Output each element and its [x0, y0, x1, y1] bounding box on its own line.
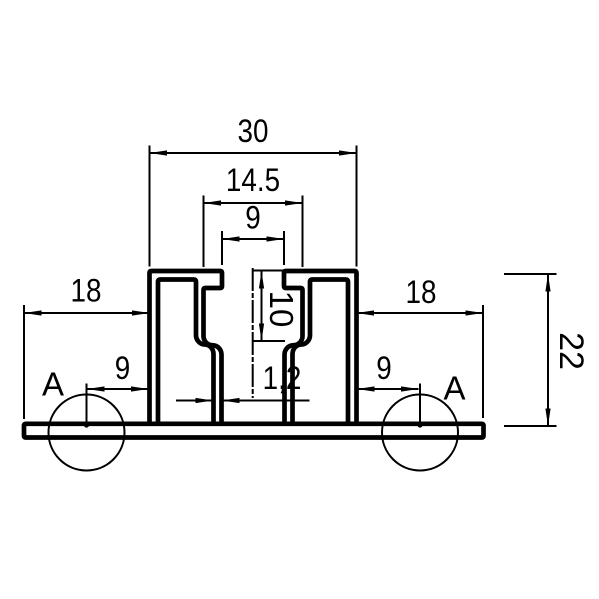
dimension 30: dimension line: [150, 152, 357, 154]
dimension 22: reference lines: [504, 273, 557, 275]
dimension 9 top: dimension line: [222, 238, 284, 240]
dimension 18 left: dimension line: [24, 312, 150, 314]
dimension 22: dimension line: [547, 274, 549, 426]
dimension 14.5: extension lines: [203, 196, 205, 268]
svg-text:22: 22: [552, 332, 590, 370]
base plate: [24, 424, 484, 438]
svg-text:A: A: [443, 370, 465, 407]
arrows dim 1,2: [196, 398, 214, 403]
section point dot right: [417, 422, 422, 427]
profile outer contour (center rail section with lips and central channel): [150, 271, 223, 426]
section centerline right: [419, 384, 421, 424]
dimension 10: reference lines: [253, 270, 285, 272]
arrows dim 22: [545, 274, 550, 292]
svg-text:9: 9: [245, 201, 260, 236]
dimension 9 right: dimension line: [357, 388, 419, 390]
left box inner contour: [158, 280, 214, 427]
svg-text:9: 9: [376, 351, 391, 386]
arrowheads: [24, 150, 551, 426]
profile outer contour right half: [284, 271, 357, 426]
thin line work: [24, 146, 557, 471]
svg-text:10: 10: [263, 291, 300, 328]
dimension 30: extension lines: [149, 146, 151, 267]
svg-text:9: 9: [115, 351, 130, 386]
svg-text:1,2: 1,2: [263, 361, 302, 396]
svg-text:18: 18: [71, 274, 102, 309]
dimension 18 left: extension line: [23, 305, 25, 419]
dimension 9 top: extension lines: [221, 231, 223, 265]
svg-text:30: 30: [238, 114, 269, 149]
detail circle A left: [49, 395, 125, 471]
dimension 18 right: dimension line: [357, 312, 484, 314]
svg-text:18: 18: [406, 275, 437, 310]
centerline of channel: [252, 268, 254, 398]
detail circle A right: [382, 395, 458, 471]
dimension 1,2: dimension line left tail: [176, 400, 213, 402]
section point dot left: [84, 422, 89, 427]
arrows dim 9 top: [222, 236, 240, 241]
arrows dim 9 right: [357, 386, 375, 391]
right box inner contour: [293, 280, 349, 427]
svg-text:A: A: [42, 366, 64, 403]
dimension 9 left: dimension line: [87, 388, 149, 390]
dimension 1,2: dimension line right tail: [222, 400, 310, 402]
arrows dim 18 left: [24, 310, 42, 315]
svg-text:14.5: 14.5: [226, 163, 280, 198]
dimension texts: [42, 114, 590, 406]
section centerline left: [86, 384, 88, 424]
arrows dim 14.5: [204, 200, 222, 205]
arrows dim 18 right: [357, 310, 375, 315]
dimension 14.5: dimension line: [204, 202, 303, 204]
arrows dim 10: [259, 271, 264, 289]
dimension 18 right: extension line: [482, 305, 484, 418]
dimension 10: dimension line: [261, 271, 263, 341]
arrows dim 9 left: [87, 386, 105, 391]
arrows dim 30: [150, 150, 168, 155]
